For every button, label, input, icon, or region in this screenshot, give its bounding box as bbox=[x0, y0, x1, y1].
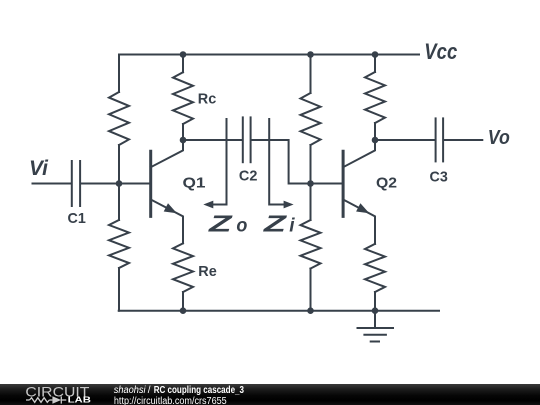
svg-text:shaohsi: shaohsi bbox=[114, 385, 147, 396]
svg-text:RC coupling cascade_3: RC coupling cascade_3 bbox=[154, 385, 245, 396]
svg-text:http://circuitlab.com/crs7655: http://circuitlab.com/crs7655 bbox=[114, 396, 227, 405]
svg-text:/: / bbox=[148, 385, 151, 396]
svg-text:LAB: LAB bbox=[68, 396, 92, 405]
